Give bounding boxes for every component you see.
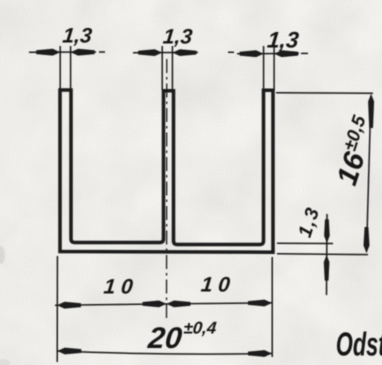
arrowhead left-outward 20 dim [57,348,81,355]
top-middle arrowhead left-pointing [172,49,196,56]
top-right 1,3 dimension: extension line b [273,46,275,90]
top-left 1,3 dimension: extension line a [59,46,61,89]
bottom-right extension line [271,257,273,357]
paper smudge left edge [0,246,5,264]
svg-text:1,3: 1,3 [62,25,94,48]
top-middle 1,3 dimension line [133,51,234,54]
top-right 1,3 dimension: extension line a [263,46,265,90]
arrowhead down to inner-bottom line [324,219,330,243]
top-right 1,3 dimension line [237,52,308,54]
bottom-left extension line [56,256,58,362]
label 1,3 rotated [295,204,325,240]
top-middle 1,3 dimension: extension line a [161,46,163,90]
extension line outer-bottom for 1,3 thickness [277,253,368,256]
svg-text:10: 10 [200,274,237,297]
top-middle 1,3 dimension: extension line b [171,46,173,90]
label 16 ±0,5 rotated [328,112,382,189]
arrowhead right-outward at x272 [248,300,272,307]
dimension line 16 (vertical right) [367,95,372,252]
top-right arrowhead left-pointing [274,50,298,57]
top-left 1,3 dimension line [29,51,105,53]
svg-text:10: 10 [103,276,140,299]
arrowhead up 16 dim [368,94,374,128]
svg-text:1,3: 1,3 [266,28,300,53]
svg-text:Odstu: Odstu [336,326,382,363]
dimension line 1,3 (vertical, bottom right) [326,214,329,295]
dimension line 20 [57,351,272,354]
arrowhead right-outward 20 dim [248,350,272,357]
svg-text:1,3: 1,3 [162,26,194,49]
dimension line 10 | 10 [55,303,272,305]
extension line top for 16 dimension [276,92,373,95]
top-left 1,3 dimension: extension line b [70,46,72,89]
svg-text:±0,4: ±0,4 [183,319,218,338]
top-middle arrowhead right-pointing [138,49,162,56]
profile outline: double-U channel cross-section [60,90,273,252]
top-left arrowhead left-pointing [71,49,95,56]
arrowhead left-outward at x57 [57,302,81,309]
arrowhead down 16 dim [364,227,370,253]
svg-text:20: 20 [146,322,184,355]
arrowhead up to outer-bottom line [324,255,330,281]
centre axis line of middle wall (dash-dot) [166,59,168,320]
top-right arrowhead right-pointing [240,50,264,57]
arrowhead right-pointing at centre [143,301,167,308]
arrowhead left-pointing at centre [167,301,191,308]
paper smudge bottom left corner [0,359,10,365]
extension line inner-bottom for 1,3 thickness [277,242,333,244]
top-left arrowhead right-pointing [36,49,60,56]
